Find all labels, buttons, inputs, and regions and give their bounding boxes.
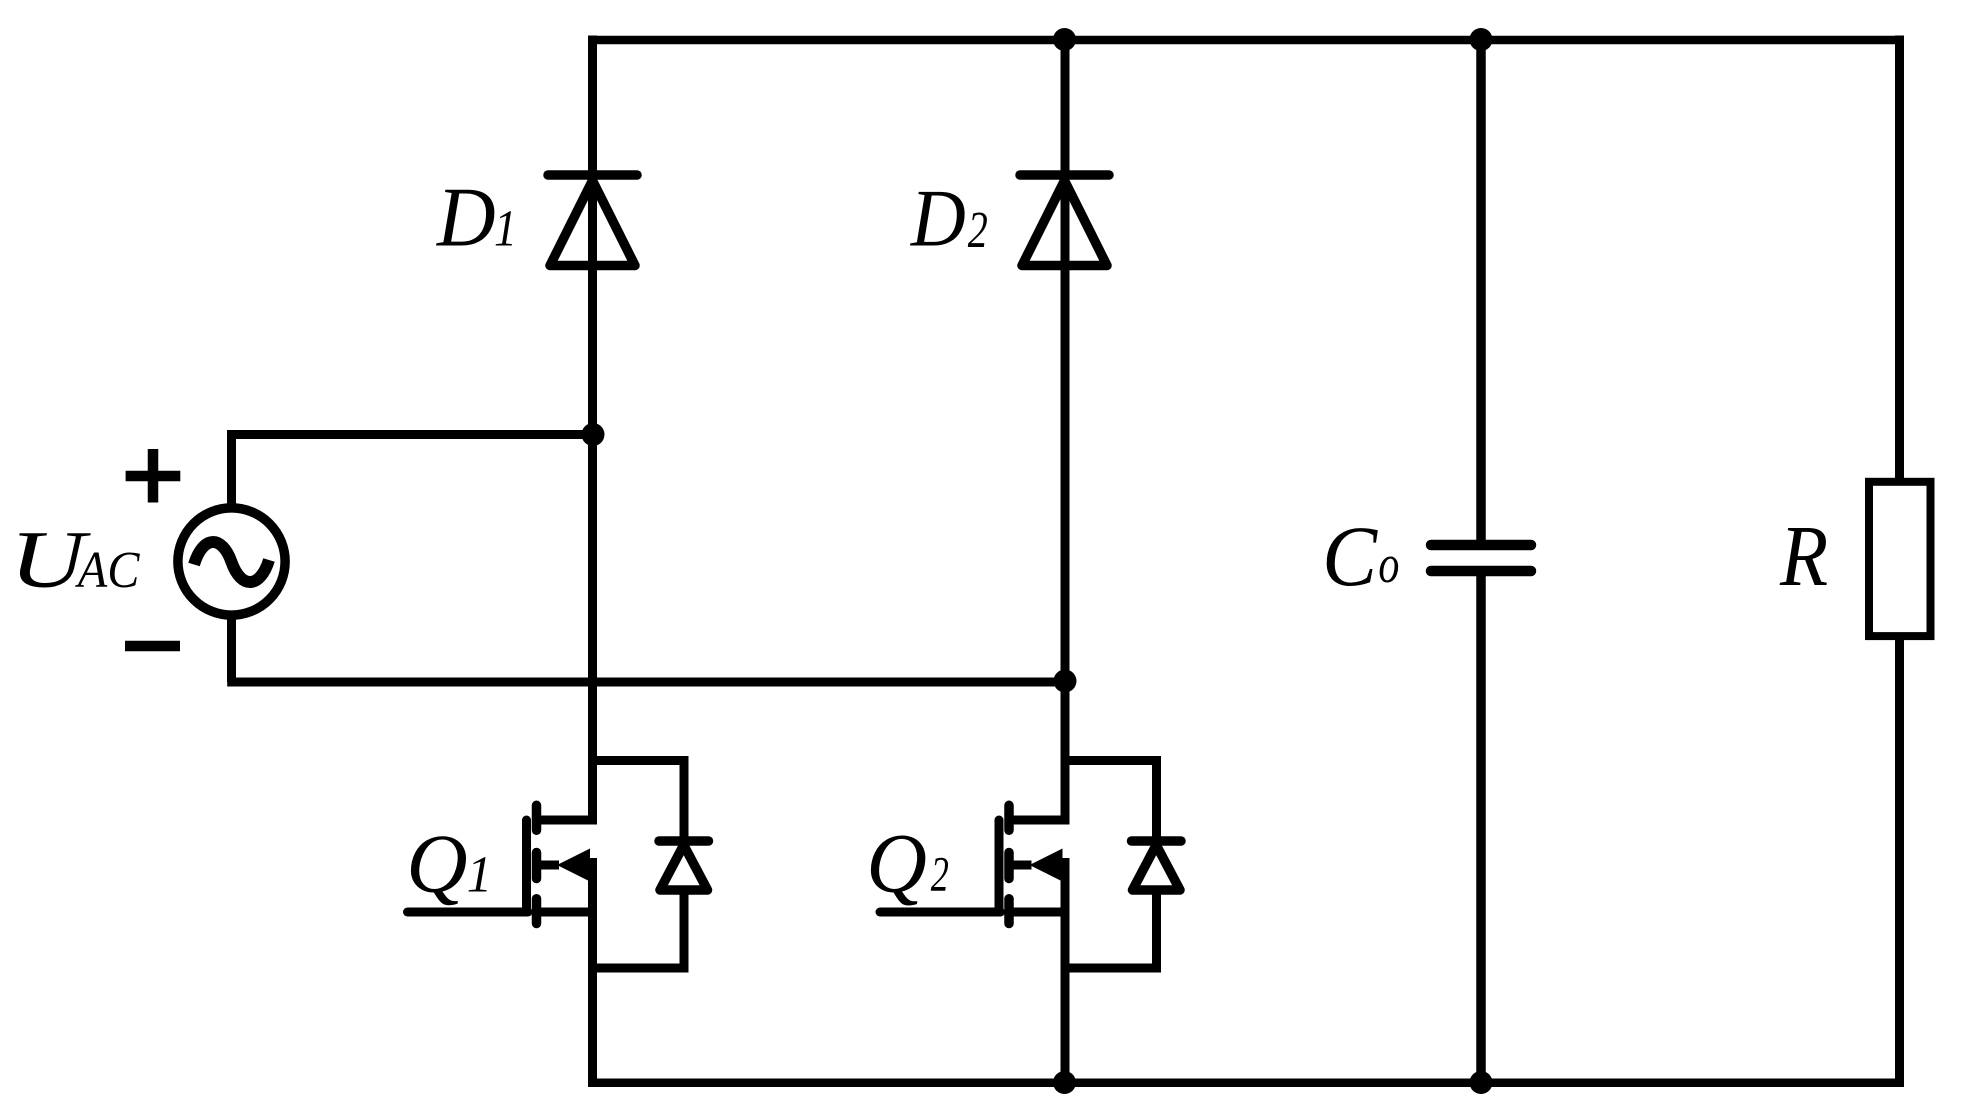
svg-text:D: D (436, 170, 496, 264)
svg-text:Q: Q (406, 818, 467, 910)
svg-text:Q: Q (866, 817, 927, 910)
svg-text:C: C (1322, 510, 1378, 605)
svg-text:2: 2 (968, 202, 988, 259)
svg-text:AC: AC (75, 540, 140, 598)
svg-text:o: o (1378, 534, 1399, 594)
svg-text:R: R (1779, 507, 1828, 603)
svg-text:D: D (910, 174, 966, 264)
svg-text:2: 2 (931, 847, 949, 902)
svg-text:1: 1 (467, 846, 492, 903)
svg-text:1: 1 (494, 199, 517, 257)
